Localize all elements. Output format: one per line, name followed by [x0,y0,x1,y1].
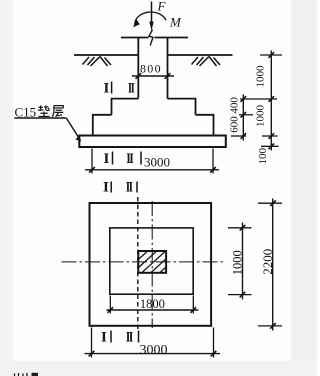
svg-text:I: I [104,81,110,97]
tick [269,144,275,150]
extension at step2 top [239,114,253,116]
extension at slab bottom [261,145,279,147]
tick [191,307,197,313]
dim 3000 extension left [91,149,93,174]
ground line left [74,54,138,56]
svg-text:400: 400 [228,97,240,114]
extension top [258,202,282,204]
moment M arc [133,12,166,27]
dim 1800 extension left [109,296,111,314]
svg-text:M: M [169,15,182,30]
svg-text:100: 100 [257,148,269,165]
tick [210,167,216,173]
tick [269,96,275,102]
tick [269,52,275,58]
dim 3000 line [85,169,219,171]
dim line outer [270,51,272,151]
svg-text:2200: 2200 [260,249,275,275]
extension top [228,227,252,229]
tick [270,200,276,206]
leader diagonal [66,118,80,141]
tick [211,351,217,357]
dim line 400/600 [242,95,244,141]
leader underline [14,117,66,119]
section line dashed vertical [137,197,139,331]
svg-text:1000: 1000 [255,65,267,88]
extension at ground [260,54,282,56]
svg-text:800: 800 [140,62,162,76]
tick [108,307,114,313]
svg-text:F: F [157,0,167,14]
soil hatch left [83,57,112,67]
svg-text:3000: 3000 [140,343,168,358]
cushion slab C15 [79,136,226,148]
tick [240,225,246,231]
svg-text:I: I [101,330,107,346]
dim 800 tick right [165,73,171,79]
svg-text:I: I [103,180,109,196]
glyph 垫 [38,105,50,116]
tick [269,133,275,139]
dim line [242,223,244,300]
right scan margin [291,0,317,376]
dim line [272,199,274,331]
bottom-left cutoff caption fragments [15,373,28,376]
tick [89,167,95,173]
tick [270,323,276,329]
ground line right [168,54,233,56]
extension at slab top [231,135,246,137]
svg-text:3000: 3000 [144,154,170,169]
outer square 3000x2200 [90,203,212,326]
svg-text:1000: 1000 [255,105,267,128]
dim 3000 extension right [212,149,214,174]
column top line [121,37,149,39]
svg-text:I: I [104,151,110,167]
bottom scan margin [0,361,317,376]
dim 3000 plan extension left [91,328,93,358]
inner square 1800x1000 [110,228,193,294]
dim 3000 plan extension right [213,328,215,358]
column left edge [137,38,139,99]
left scan margin [0,0,13,376]
column right edge [167,38,169,99]
dim 1800 line [107,309,199,311]
tick [241,133,247,139]
footing step 1 [112,99,139,115]
svg-text:1000: 1000 [231,250,245,275]
dim 800 tick left [136,73,142,79]
svg-text:600: 600 [228,116,240,133]
dim 800 line [132,75,174,77]
break symbol [149,30,153,46]
column hatched rect [138,251,166,273]
tick [241,96,247,102]
centerline horizontal dash-dot [62,261,227,263]
extension bottom [228,294,252,296]
svg-text:C15: C15 [15,105,37,120]
glyph 层 [52,106,63,117]
svg-text:1800: 1800 [140,297,165,311]
centerline vertical dash-dot [151,201,153,328]
tick [240,292,246,298]
extension bottom [258,325,282,327]
force F arrow [149,2,153,31]
leader arrowhead [75,136,81,141]
tick [241,112,247,118]
tick [89,351,95,357]
extension at footing top [240,98,277,100]
soil hatch right [192,57,221,67]
dim 3000 plan line [85,353,221,355]
footing step 2 [93,115,112,136]
column hatch lines [119,248,187,277]
dim 1800 extension right [192,296,194,314]
